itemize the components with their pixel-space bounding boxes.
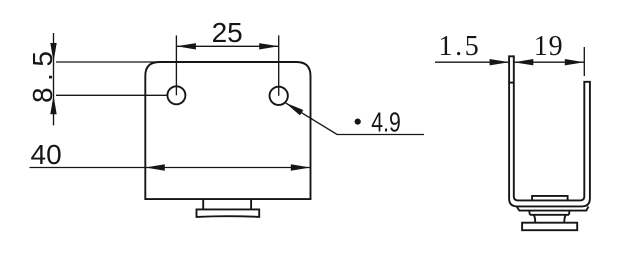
dimension 40 line [30,167,311,169]
dimension 19 arrow right [565,59,585,65]
dimension 19 line [514,61,585,63]
side view waist lower right [564,215,566,223]
dimension 25 line [176,45,278,47]
front view body outline [145,62,310,199]
side view bottom plate [522,223,577,231]
mounting hole left [167,86,185,104]
hole diameter bullet dot [355,119,361,125]
svg-text:4.9: 4.9 [371,106,401,137]
dimension 25 extension line left [175,35,177,95]
dimension 40 arrow left [145,164,165,170]
side view left wall step line [509,82,514,84]
dimension 25 arrow left [176,43,196,49]
dimension 8.5 arrow bottom [50,95,56,114]
dimension 1.5 arrow [490,59,510,65]
bottom tab left edge [202,199,204,209]
bottom tab right edge [250,199,252,209]
side view waist upper left [528,211,531,215]
mounting hole right [270,87,288,105]
dimension 25 extension line right [278,35,280,95]
svg-text:40: 40 [31,139,62,170]
svg-text:19: 19 [534,31,564,62]
dimension 40 arrow right [291,164,311,170]
svg-text:8.5: 8.5 [27,45,58,103]
side view chamfered band [517,207,589,211]
dimension 8.5 extension line top [56,61,160,63]
dimension 25 arrow right [259,43,279,49]
side view waist lower left [534,215,536,223]
dimension 19 extension line [583,47,585,76]
side view channel outline [509,56,590,206]
dimension 8.5 extension line bottom [56,94,167,96]
dimension 1.5 leader line [435,61,509,63]
hole diameter leader line [285,103,424,135]
dimension 8.5 line [53,33,55,125]
side view waist upper right [568,211,571,215]
side view waist mid line [530,214,569,216]
hole diameter leader arrow [285,103,303,116]
svg-text:1.5: 1.5 [439,31,482,62]
dimension 19 arrow left [514,59,534,65]
bottom base plate front view [197,209,260,217]
dimension 8.5 arrow top [50,43,56,62]
svg-text:25: 25 [212,17,243,48]
side view inner boss [532,196,568,201]
